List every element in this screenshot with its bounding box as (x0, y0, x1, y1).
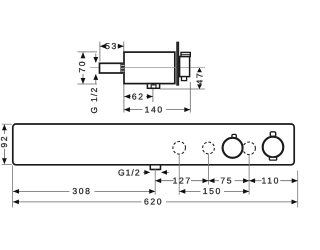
dim 92 (3, 130, 5, 159)
temp knob bottom tab (269, 157, 276, 160)
dim row 127 / 75 / 110 (155, 180, 298, 182)
bottom outlet (150, 165, 160, 170)
svg-text:75: 75 (220, 176, 233, 186)
svg-text:G1/2: G1/2 (118, 167, 141, 177)
knob cap (181, 52, 190, 56)
dashed hole circle 3 (243, 142, 256, 155)
svg-text:620: 620 (144, 197, 163, 207)
select knob notch (232, 134, 236, 138)
svg-text:92: 92 (0, 135, 9, 148)
dim 53 (100, 42, 124, 62)
extension lines (front) (2, 124, 298, 207)
svg-text:G 1/2: G 1/2 (89, 86, 99, 113)
spout pipe (100, 63, 122, 73)
centerline (90, 67, 205, 69)
select knob circle (223, 138, 243, 158)
dim 47 (160, 68, 205, 89)
svg-text:62: 62 (132, 91, 145, 101)
svg-text:70: 70 (77, 60, 87, 73)
threaded collar (121, 62, 124, 74)
knob body (180, 57, 190, 77)
knob foot (182, 77, 187, 81)
dim 70 (78, 52, 98, 84)
temp knob circle (263, 137, 284, 158)
dim 62 (124, 89, 153, 102)
svg-text:53: 53 (105, 41, 118, 51)
spout diameter arrows (95, 54, 97, 59)
temp knob notch (270, 132, 275, 137)
dim 150 (179, 190, 249, 192)
svg-text:110: 110 (262, 176, 281, 186)
dim 140 (124, 82, 190, 113)
svg-text:150: 150 (203, 186, 222, 196)
svg-text:308: 308 (72, 186, 91, 196)
wall plate (177, 42, 179, 85)
svg-text:127: 127 (173, 176, 192, 186)
bar body (13, 124, 294, 165)
svg-text:140: 140 (145, 104, 164, 114)
dashed hole circle 1 (173, 142, 186, 155)
body outline (top view) (124, 52, 175, 84)
dashed hole circle 2 (203, 142, 215, 154)
svg-text:47: 47 (194, 72, 204, 85)
dim 620 (13, 201, 298, 203)
dim 308 (13, 190, 155, 192)
mounting foot (top view) (147, 84, 159, 89)
